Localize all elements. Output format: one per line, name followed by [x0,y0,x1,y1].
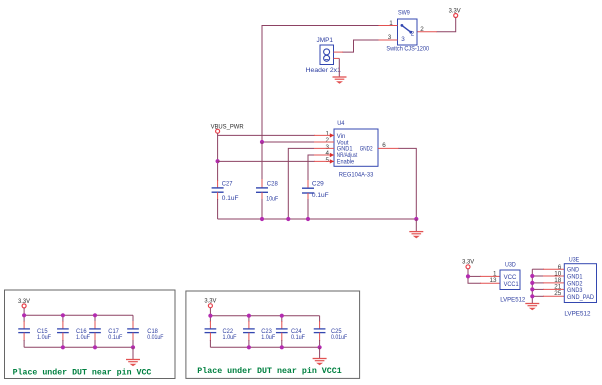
svg-text:VCC1: VCC1 [504,281,519,288]
pin stub U3E pin6 [543,268,564,270]
top rail (box1) [24,314,133,316]
label C16 [76,328,87,335]
svg-text:VBUS_PWR: VBUS_PWR [211,124,244,131]
wire U4 GND1 (pin3) down to rail [288,148,314,219]
svg-text:Place under DUT near pin VCC1: Place under DUT near pin VCC1 [197,366,341,376]
svg-text:C28: C28 [267,180,278,187]
label U4 [337,120,345,127]
pin number 3 (U4) [325,144,329,151]
power symbol 3.3V (top right) [449,8,462,18]
svg-text:3.3V: 3.3V [449,8,462,15]
junction bottom rail C23 [247,345,251,349]
junction C28/rail [260,217,264,221]
junction Vout/C28 [260,140,264,144]
capacitor C28 [256,188,268,192]
svg-text:0.1uF: 0.1uF [222,195,239,202]
svg-text:U3D: U3D [505,261,516,268]
svg-text:3.3V: 3.3V [204,298,217,305]
power symbol 3.3V (box1) [18,298,31,308]
junction bus/GND1 [530,274,534,278]
svg-text:2: 2 [420,26,424,33]
wire VBUS_PWR down to C27 and Enable junction [217,135,219,188]
junction GND1/rail [286,217,290,221]
svg-text:3.3V: 3.3V [462,258,475,265]
svg-text:LVPE512: LVPE512 [564,311,590,318]
capacitor C18 [127,315,139,347]
value 1.0uF (C23) [261,334,275,341]
svg-text:25: 25 [554,290,562,297]
pin stub SW9 pin3 [378,39,398,41]
pin stub U3E pin18 [543,282,564,284]
svg-text:0.01uF: 0.01uF [331,334,347,341]
value 0.01uF (C25) [331,334,347,341]
pin stub U4 pin6 [378,147,399,149]
label LVPE512 (U3E) [564,311,590,318]
label C25 [331,328,342,335]
pin stub U4 pin3 [314,147,334,149]
pin stub JMP1 pin1 [334,51,344,53]
label C23 [261,328,272,335]
svg-text:REG104A-33: REG104A-33 [339,172,374,179]
value 10uF (C28) [266,196,278,203]
label U3E [569,256,580,263]
pin number 2 (SW9) [420,26,424,33]
pin number 2 (U4) [325,137,329,144]
ground under rail [409,232,423,239]
pin number 25 (U3E) [554,290,562,297]
pin stub U4 pin5 with arrow [314,159,334,163]
capacitor C17 [89,315,101,347]
svg-text:0.1uF: 0.1uF [291,334,305,341]
regulator U4 REG104A-33 [334,129,378,166]
svg-text:3: 3 [401,36,405,43]
pin stub U3E pin21 [543,288,564,290]
outline box (VCC1 cap bank) [186,291,360,378]
wire Enable net to U4 pin5 [218,160,315,162]
value 0.1uF (C29) [312,192,329,199]
ground rail (bottom of regulator section) [218,218,417,220]
pin number 1 (U4) [325,131,329,138]
label C28 [267,180,278,187]
junction bus/GND_PAD [530,294,534,298]
outline box (VCC cap bank) [5,290,176,379]
label C18 [147,328,158,335]
wire C27 to rail [217,192,219,219]
svg-text:2: 2 [411,31,415,38]
label JMP1 [317,37,334,44]
wire 3.3V to top rail (box1) [23,308,25,315]
wire to ground (box2) [319,347,321,358]
connector U3D [500,270,520,290]
junction top rail C16 [61,313,65,317]
junction bottom rail C18/ground [131,345,135,349]
value 1.0uF (C16) [76,334,90,341]
label C22 [223,328,234,335]
pin number 18 (U3E) [554,277,562,284]
junction top rail C24 [280,314,284,318]
wire U4 NR/Adjust (pin4) to C29 [308,155,314,188]
svg-text:0.01uF: 0.01uF [147,334,163,341]
value 0.01uF (C18) [147,334,163,341]
capacitor C29 [302,188,314,193]
net label VBUS_PWR [211,124,244,134]
label C24 [291,328,302,335]
svg-text:10uF: 10uF [266,196,278,203]
wire U4 GND2 (pin6) to rail [399,148,417,219]
label LVPE512 (U3D) [500,296,525,303]
label REG104A-33 [339,172,374,179]
junction bottom rail C17 [93,345,97,349]
svg-text:GND3: GND3 [567,287,583,294]
wire SW9 pin1 to Vout net (long top wire) [262,26,379,143]
capacitor C24 [276,316,288,348]
junction C29/rail [306,217,310,221]
pin stub JMP1 pin2 [334,57,340,59]
junction rail/ground [414,217,418,221]
capacitor C16 [57,315,69,347]
capacitor C15 [18,315,30,347]
pin number 3 (SW9) [388,34,392,41]
power symbol 3.3V (U3D) [462,258,475,268]
pin number 6 (U3E) [558,264,562,271]
junction top rail C17 [93,313,97,317]
capacitor C23 [243,316,255,348]
wire Vout junction down to C28 [261,142,263,188]
svg-text:1.0uF: 1.0uF [223,334,237,341]
ground (box1) [126,360,140,367]
svg-text:U3E: U3E [569,256,580,263]
pin stub U4 pin2 [314,141,334,143]
wire to ground (box1) [132,347,134,359]
svg-text:3.3V: 3.3V [18,298,31,305]
label C17 [108,328,119,335]
capacitor C22 [205,316,217,348]
svg-text:5: 5 [325,157,329,164]
value 1.0uF (C22) [223,334,237,341]
pin number 4 (U4) [325,150,329,157]
pin stub U3D VCC1 [480,282,500,284]
wire JMP1 pin2 to ground [338,58,340,77]
note Place under DUT near pin VCC [13,368,152,378]
wire SW9 pin2 to 3.3V [437,18,456,32]
pin number 1 (U3D) [493,271,497,278]
svg-text:Enable: Enable [337,159,355,166]
value 1.0uF (C15) [37,334,51,341]
pin number 21 (U3E) [554,284,562,291]
junction top rail C15 [22,313,26,317]
pin stub U3E pin25 [543,295,564,297]
wire rail to ground symbol [415,219,417,232]
svg-text:U4: U4 [337,120,345,127]
label Header 2x1 [306,67,342,74]
svg-text:0.1uF: 0.1uF [312,192,329,199]
svg-text:Switch CJS-1200: Switch CJS-1200 [386,46,429,53]
svg-text:13: 13 [489,277,497,284]
ground under U3E bus [525,304,539,311]
pin stub U3D VCC [480,275,500,277]
pin stub SW9 pin1 [378,25,398,27]
wire U3E ground bus [532,269,544,303]
svg-text:C27: C27 [222,181,233,188]
pin number 5 (U4) [325,157,329,164]
value 0.1uF (C17) [108,334,122,341]
svg-text:Place under DUT near pin VCC: Place under DUT near pin VCC [13,368,152,378]
switch SW9 [398,19,418,45]
wire VBUS_PWR to U4 Vin (pin1) [218,133,315,135]
label U3D [505,261,516,268]
wire Vout net to U4 pin2 [262,141,315,143]
pin stub U4 pin1 with arrow [314,133,334,137]
pin number 13 (U3D) [489,277,497,284]
wire SW9 pin3 to JMP1 [342,40,379,52]
svg-text:GND_PAD: GND_PAD [567,294,594,301]
note Place under DUT near pin VCC1 [197,366,341,376]
svg-text:1.0uF: 1.0uF [76,334,90,341]
svg-text:6: 6 [382,142,386,149]
label SW9 [398,9,410,16]
junction top rail C22 [208,314,212,318]
junction bottom rail C25/ground [318,345,322,349]
junction bottom rail C16 [61,345,65,349]
bottom rail (box1) [24,346,133,348]
svg-text:Header 2x1: Header 2x1 [306,67,342,74]
capacitor C25 [314,316,326,348]
connector JMP1 [320,45,334,65]
value 0.1uF (C27) [222,195,239,202]
junction bottom rail C24 [280,345,284,349]
svg-text:1.0uF: 1.0uF [37,334,51,341]
svg-text:C29: C29 [312,181,324,188]
wire C29 to rail [307,193,309,219]
junction bus/GND2 [530,281,534,285]
value 0.1uF (C24) [291,334,305,341]
bottom rail (box2) [210,346,319,348]
svg-text:1.0uF: 1.0uF [261,334,275,341]
pin number 10 (U3E) [554,271,562,278]
ground (box2) [313,359,327,366]
top rail (box2) [210,315,319,317]
junction bus/GND3 [530,287,534,291]
svg-text:0.1uF: 0.1uF [108,334,122,341]
capacitor C27 [212,188,224,192]
wire 3.3V to U3D pins [468,269,481,284]
power symbol 3.3V (box2) [204,298,217,308]
label C27 [222,181,233,188]
wire 3.3V to top rail (box2) [209,308,211,316]
connector U3E [564,264,596,303]
pin number 6 (U4) [382,142,386,149]
svg-text:LVPE512: LVPE512 [500,296,525,303]
svg-text:GND2: GND2 [360,145,373,152]
junction top rail C23 [247,314,251,318]
ground under JMP1 [333,77,347,84]
wire C28 to rail [261,192,263,219]
pin stub SW9 pin2 [417,31,437,33]
svg-text:JMP1: JMP1 [317,37,334,44]
svg-text:SW9: SW9 [398,9,410,16]
label C29 [312,181,324,188]
pin number 1 (SW9) [389,20,393,27]
pin stub U3E pin10 [543,275,564,277]
pin stub U4 pin4 with arrow [314,153,334,157]
label C15 [37,328,48,335]
label Switch CJS-1200 [386,46,429,53]
junction VBUS/Enable [216,159,220,163]
junction 3.3V/VCC [466,274,470,278]
